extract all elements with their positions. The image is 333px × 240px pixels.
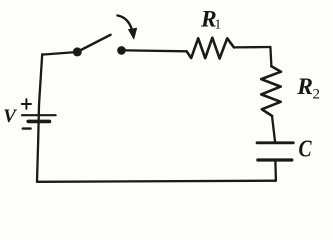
- resistor R2 (vertical zigzag): [261, 66, 281, 116]
- battery V top plate (+, long): [22, 114, 56, 116]
- resistor R1 (zigzag): [187, 38, 234, 59]
- wire R2 to capacitor: [272, 116, 275, 141]
- switch S1 arm (open blade): [78, 35, 111, 52]
- wire switch to R1: [122, 50, 187, 51]
- battery V bottom plate (-, short thick): [28, 120, 49, 124]
- capacitor C bottom plate: [258, 158, 292, 161]
- svg-text:2: 2: [313, 87, 321, 103]
- wire bottom (bottom-right to bottom-left corner): [37, 181, 276, 182]
- wire capacitor to bottom-right corner: [274, 162, 277, 181]
- arrow indicating switch closing: [118, 16, 137, 39]
- svg-text:C: C: [299, 135, 312, 163]
- switch contact node (right dot): [117, 46, 126, 55]
- svg-text:R: R: [296, 74, 313, 100]
- svg-text:V: V: [3, 106, 17, 127]
- wire left side (top-left corner down through battery to bottom-left corner): [37, 54, 42, 181]
- wire R1 to top-right corner: [234, 46, 271, 49]
- wire right side top (corner down to R2): [270, 47, 271, 66]
- capacitor C top plate: [257, 141, 293, 144]
- wire top-left horizontal (corner to switch pole): [42, 52, 77, 55]
- battery - sign: [23, 127, 31, 129]
- switch contact node (left dot): [73, 47, 82, 56]
- battery + sign: [22, 99, 31, 108]
- svg-text:1: 1: [215, 17, 222, 32]
